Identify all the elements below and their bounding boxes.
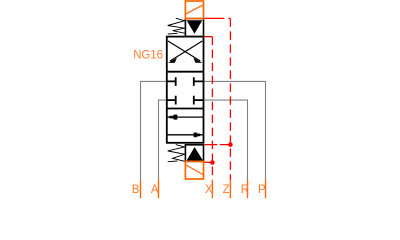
svg-text:Z: Z [223,184,230,196]
svg-text:B: B [132,184,140,196]
svg-text:R: R [241,184,249,196]
svg-text:X: X [205,184,213,196]
svg-text:P: P [258,184,266,196]
svg-text:A: A [151,184,159,196]
svg-text:NG16: NG16 [133,48,163,62]
